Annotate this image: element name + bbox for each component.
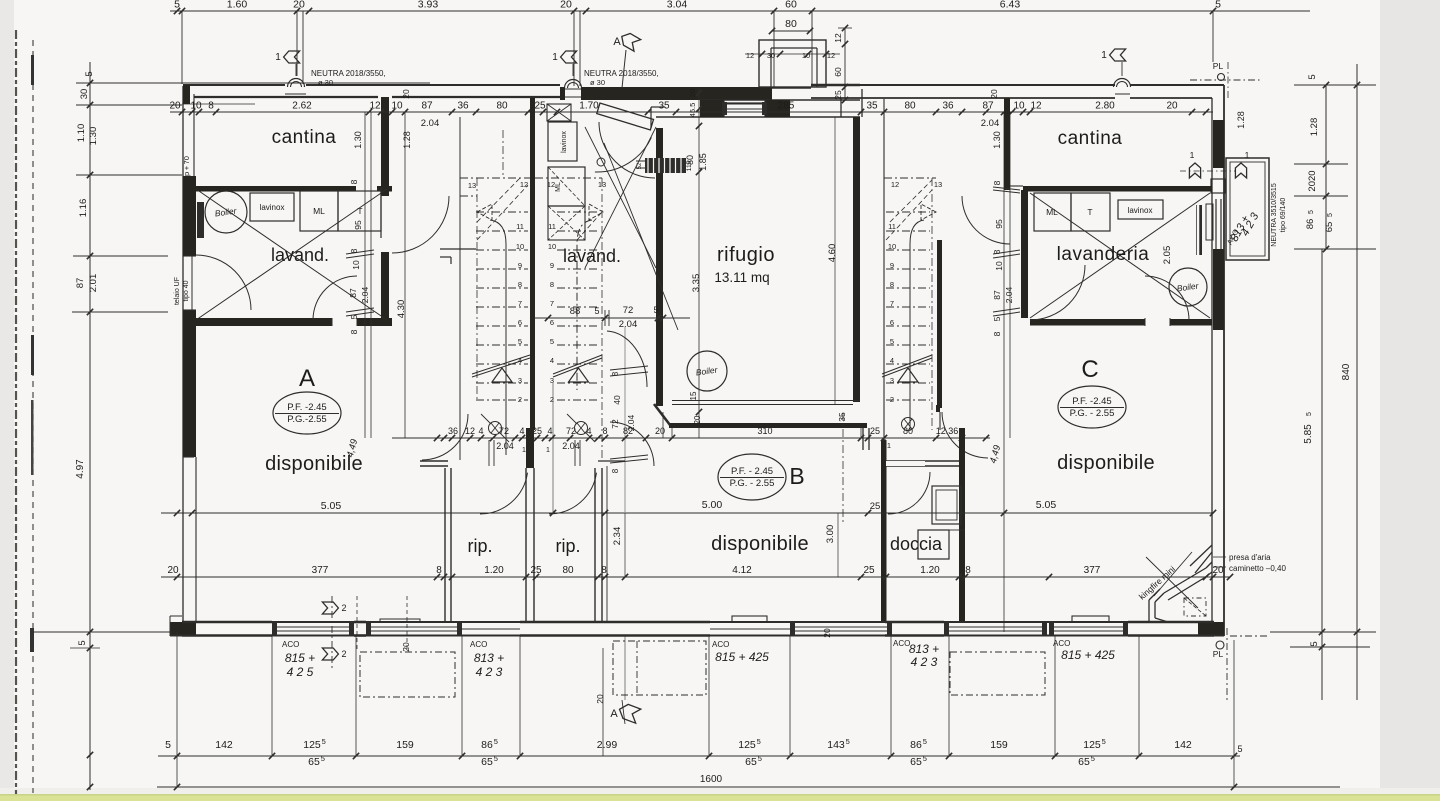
svg-text:95: 95: [353, 220, 363, 230]
svg-text:1.70: 1.70: [579, 101, 599, 112]
svg-text:143: 143: [827, 739, 845, 751]
svg-text:813 +: 813 +: [909, 642, 939, 656]
svg-text:13.11 mq: 13.11 mq: [714, 270, 769, 285]
svg-text:NEUTRA 2018/3550,: NEUTRA 2018/3550,: [311, 69, 386, 78]
svg-text:72: 72: [610, 419, 620, 429]
svg-text:P.G. - 2.55: P.G. - 2.55: [1070, 408, 1115, 419]
svg-text:lavinox: lavinox: [260, 203, 285, 212]
svg-text:5: 5: [174, 0, 180, 11]
svg-text:ACO: ACO: [1053, 639, 1070, 648]
svg-text:2.99: 2.99: [597, 739, 618, 751]
svg-text:1600: 1600: [700, 774, 723, 785]
svg-text:C: C: [1081, 356, 1098, 383]
svg-text:lavanderia: lavanderia: [1057, 244, 1150, 265]
svg-text:30: 30: [767, 51, 775, 60]
svg-text:20: 20: [401, 642, 411, 652]
svg-text:lavand.: lavand.: [271, 245, 329, 265]
svg-text:4 2 5: 4 2 5: [287, 665, 314, 679]
svg-text:ACO: ACO: [282, 640, 299, 649]
svg-text:65: 65: [910, 756, 922, 768]
svg-text:4: 4: [547, 426, 552, 436]
svg-text:10: 10: [351, 260, 361, 270]
svg-text:disponibile: disponibile: [265, 453, 363, 475]
svg-text:35: 35: [837, 412, 847, 422]
svg-text:25: 25: [870, 426, 880, 436]
svg-text:2.34: 2.34: [612, 527, 623, 546]
svg-text:3: 3: [890, 376, 894, 385]
svg-text:65: 65: [1324, 222, 1335, 233]
svg-text:tipo 40: tipo 40: [183, 280, 190, 301]
svg-text:lavand.: lavand.: [563, 246, 621, 266]
svg-text:5: 5: [846, 737, 850, 746]
svg-text:377: 377: [1084, 565, 1101, 576]
svg-text:5: 5: [890, 337, 894, 346]
svg-text:5: 5: [1091, 754, 1095, 763]
svg-text:rifugio: rifugio: [717, 244, 775, 266]
svg-text:P.F. -2.45: P.F. -2.45: [287, 402, 326, 413]
svg-text:142: 142: [215, 739, 233, 751]
svg-text:2.01: 2.01: [88, 274, 99, 293]
svg-text:2.04: 2.04: [981, 118, 1000, 129]
svg-text:ML: ML: [555, 182, 562, 192]
svg-text:12: 12: [891, 180, 899, 189]
svg-text:20: 20: [167, 565, 179, 576]
svg-text:5.00: 5.00: [702, 499, 723, 511]
svg-text:4.60: 4.60: [827, 244, 838, 263]
svg-text:4: 4: [890, 356, 894, 365]
svg-text:5: 5: [518, 337, 522, 346]
svg-text:11: 11: [516, 222, 524, 231]
svg-text:4 2 3: 4 2 3: [476, 665, 503, 679]
svg-text:86: 86: [481, 739, 493, 751]
svg-text:5: 5: [1309, 641, 1320, 646]
svg-text:1.20: 1.20: [484, 565, 504, 576]
svg-text:20: 20: [595, 694, 605, 704]
svg-text:ACO: ACO: [893, 639, 910, 648]
svg-text:11: 11: [548, 222, 556, 231]
svg-text:159: 159: [396, 739, 414, 751]
svg-text:1: 1: [552, 52, 558, 63]
svg-text:1.10: 1.10: [76, 124, 87, 143]
svg-text:ø 30: ø 30: [590, 78, 605, 87]
svg-text:5: 5: [758, 754, 762, 763]
svg-text:P.G. - 2.55: P.G. - 2.55: [730, 478, 775, 489]
svg-text:PL: PL: [1213, 649, 1224, 659]
svg-text:86: 86: [1305, 219, 1316, 230]
svg-text:815 + 425: 815 + 425: [1061, 648, 1115, 662]
svg-text:125: 125: [1083, 739, 1101, 751]
svg-text:8: 8: [602, 426, 607, 436]
svg-text:87: 87: [992, 290, 1002, 300]
svg-text:35: 35: [866, 101, 878, 112]
svg-text:8: 8: [992, 180, 1002, 185]
svg-text:1.28: 1.28: [402, 131, 412, 149]
svg-text:7: 7: [518, 299, 522, 308]
svg-text:3.00: 3.00: [825, 525, 836, 544]
svg-text:87: 87: [982, 101, 994, 112]
svg-text:6: 6: [890, 318, 894, 327]
svg-text:2020: 2020: [1307, 170, 1318, 191]
svg-text:1: 1: [546, 447, 550, 454]
svg-text:65: 65: [1078, 756, 1090, 768]
svg-text:36: 36: [457, 101, 469, 112]
svg-text:5: 5: [923, 737, 927, 746]
svg-text:4.12: 4.12: [732, 565, 752, 576]
svg-text:10: 10: [190, 101, 202, 112]
svg-text:5: 5: [923, 754, 927, 763]
svg-text:4.97: 4.97: [75, 459, 86, 479]
svg-text:60: 60: [785, 0, 797, 11]
svg-text:2.62: 2.62: [292, 101, 312, 112]
svg-text:6: 6: [550, 318, 554, 327]
svg-text:A: A: [299, 365, 315, 392]
svg-text:5: 5: [653, 305, 658, 315]
svg-text:813 +: 813 +: [474, 651, 504, 665]
svg-text:5: 5: [1102, 737, 1106, 746]
svg-text:45.5: 45.5: [688, 103, 697, 118]
svg-text:8: 8: [349, 329, 359, 334]
svg-text:7: 7: [890, 299, 894, 308]
svg-text:20: 20: [693, 415, 702, 424]
svg-text:80: 80: [496, 101, 508, 112]
svg-text:ML: ML: [313, 206, 325, 216]
svg-text:87: 87: [421, 101, 433, 112]
svg-text:36: 36: [942, 101, 954, 112]
svg-text:P.F. - 2.45: P.F. - 2.45: [731, 466, 773, 477]
svg-text:6.43: 6.43: [1000, 0, 1021, 11]
svg-text:11: 11: [888, 222, 896, 231]
svg-text:25: 25: [870, 501, 881, 512]
svg-text:5: 5: [494, 737, 498, 746]
svg-text:NEUTRA 2018/3550,: NEUTRA 2018/3550,: [584, 69, 659, 78]
svg-text:lavinox: lavinox: [561, 131, 568, 153]
svg-text:1.30: 1.30: [992, 131, 1002, 149]
svg-text:5: 5: [349, 314, 359, 319]
svg-text:36: 36: [448, 426, 458, 436]
svg-text:4 2 3: 4 2 3: [911, 655, 938, 669]
svg-text:87: 87: [75, 278, 86, 289]
svg-text:25: 25: [530, 565, 542, 576]
svg-text:3.93: 3.93: [418, 0, 439, 11]
svg-text:25: 25: [534, 101, 546, 112]
svg-text:35: 35: [658, 101, 670, 112]
svg-text:815 +: 815 +: [285, 651, 315, 665]
svg-text:2: 2: [518, 395, 522, 404]
svg-text:disponibile: disponibile: [711, 533, 809, 555]
svg-text:2: 2: [550, 395, 554, 404]
svg-text:5: 5: [322, 737, 326, 746]
svg-text:doccia: doccia: [890, 534, 943, 554]
svg-text:P.F. -2.45: P.F. -2.45: [1072, 396, 1111, 407]
svg-text:A: A: [610, 708, 618, 720]
svg-text:30: 30: [79, 89, 90, 100]
svg-text:8: 8: [349, 179, 359, 184]
svg-text:20: 20: [169, 101, 181, 112]
svg-text:7: 7: [550, 299, 554, 308]
svg-text:8: 8: [349, 248, 359, 253]
svg-text:1: 1: [522, 447, 526, 454]
svg-text:1.20: 1.20: [920, 565, 940, 576]
svg-text:5: 5: [1308, 210, 1315, 214]
svg-text:ø 30: ø 30: [318, 78, 333, 87]
svg-text:4.30: 4.30: [396, 300, 407, 319]
svg-text:13: 13: [468, 181, 476, 190]
svg-text:A: A: [613, 36, 621, 48]
svg-text:5: 5: [165, 739, 171, 751]
svg-text:B: B: [789, 463, 804, 489]
svg-text:86: 86: [910, 739, 922, 751]
svg-text:ACO: ACO: [712, 640, 729, 649]
svg-text:NEUTRA 3510/3515: NEUTRA 3510/3515: [1271, 183, 1278, 247]
svg-text:5: 5: [1307, 74, 1318, 79]
svg-text:2: 2: [890, 395, 894, 404]
svg-text:9: 9: [518, 261, 522, 270]
svg-text:4: 4: [478, 426, 483, 436]
svg-text:20: 20: [655, 426, 665, 436]
svg-text:72: 72: [623, 305, 634, 316]
svg-text:2.04: 2.04: [562, 441, 580, 451]
svg-text:25: 25: [863, 565, 875, 576]
svg-text:20: 20: [293, 0, 305, 11]
svg-text:6: 6: [518, 318, 522, 327]
svg-text:ACO: ACO: [470, 640, 487, 649]
svg-text:310: 310: [757, 426, 772, 436]
svg-text:2: 2: [341, 649, 346, 659]
svg-text:5.05: 5.05: [321, 500, 342, 512]
svg-text:142: 142: [1174, 739, 1192, 751]
svg-text:285: 285: [778, 101, 795, 112]
svg-text:PL: PL: [1213, 61, 1224, 71]
svg-text:10: 10: [548, 242, 556, 251]
svg-text:8: 8: [518, 280, 522, 289]
svg-text:5.85: 5.85: [1303, 424, 1314, 444]
svg-text:12: 12: [746, 51, 754, 60]
svg-text:10: 10: [1013, 101, 1025, 112]
svg-text:15: 15: [689, 391, 698, 400]
svg-text:1: 1: [887, 441, 891, 450]
svg-text:5: 5: [550, 337, 554, 346]
svg-text:lavinox: lavinox: [1128, 206, 1153, 215]
svg-text:rip.: rip.: [467, 536, 492, 556]
svg-text:8: 8: [992, 331, 1002, 336]
svg-text:840: 840: [1341, 363, 1352, 380]
svg-text:60: 60: [833, 67, 843, 77]
svg-text:5: 5: [494, 754, 498, 763]
svg-text:87: 87: [348, 288, 358, 298]
svg-text:1.85: 1.85: [698, 153, 708, 171]
svg-text:159: 159: [990, 739, 1008, 751]
svg-text:rip.: rip.: [555, 536, 580, 556]
svg-text:1: 1: [1245, 150, 1250, 160]
svg-text:2.04: 2.04: [1004, 286, 1014, 303]
svg-text:9: 9: [550, 261, 554, 270]
svg-text:caminetto –0,40: caminetto –0,40: [1229, 564, 1286, 573]
svg-text:8: 8: [965, 565, 971, 576]
svg-text:2: 2: [341, 603, 346, 613]
svg-text:20: 20: [822, 628, 832, 638]
svg-text:20: 20: [1166, 101, 1178, 112]
svg-text:88: 88: [570, 306, 581, 317]
svg-text:115: 115: [686, 160, 693, 171]
svg-text:5: 5: [321, 754, 325, 763]
svg-text:p + 70: p + 70: [182, 156, 191, 176]
svg-text:20: 20: [560, 0, 572, 11]
svg-text:125: 125: [738, 739, 756, 751]
svg-text:12: 12: [520, 180, 528, 189]
svg-text:8: 8: [550, 280, 554, 289]
svg-text:20: 20: [989, 89, 999, 99]
svg-text:T: T: [1087, 207, 1092, 217]
svg-text:40: 40: [612, 395, 622, 405]
svg-text:1.16: 1.16: [78, 199, 89, 218]
svg-text:10: 10: [994, 261, 1004, 271]
svg-text:cantina: cantina: [272, 127, 337, 148]
svg-text:65: 65: [481, 756, 493, 768]
svg-text:20: 20: [688, 89, 697, 97]
svg-text:65: 65: [745, 756, 757, 768]
svg-text:8: 8: [890, 280, 894, 289]
svg-text:12.36: 12.36: [936, 426, 959, 436]
svg-text:2.05: 2.05: [1162, 246, 1173, 265]
svg-text:1: 1: [1190, 150, 1195, 160]
svg-text:815 + 425: 815 + 425: [715, 650, 769, 664]
svg-text:1.60: 1.60: [227, 0, 248, 11]
svg-text:P.G.-2.55: P.G.-2.55: [287, 414, 326, 425]
svg-text:377: 377: [312, 565, 329, 576]
svg-text:5: 5: [594, 306, 599, 316]
svg-text:5: 5: [992, 316, 1002, 321]
svg-text:2.04: 2.04: [626, 414, 636, 431]
svg-text:20: 20: [401, 89, 411, 99]
svg-text:disponibile: disponibile: [1057, 452, 1155, 474]
svg-text:5: 5: [1327, 213, 1334, 217]
svg-text:2.04: 2.04: [496, 441, 514, 451]
svg-text:3.04: 3.04: [667, 0, 688, 11]
svg-text:8: 8: [436, 565, 442, 576]
svg-text:8: 8: [611, 468, 620, 473]
svg-text:5: 5: [1237, 744, 1242, 754]
svg-text:5.05: 5.05: [1036, 499, 1057, 511]
svg-text:1.28: 1.28: [1236, 111, 1246, 129]
svg-text:12: 12: [833, 33, 843, 43]
svg-text:10: 10: [391, 101, 403, 112]
svg-text:80: 80: [562, 565, 574, 576]
svg-text:1: 1: [1101, 50, 1107, 61]
svg-text:10: 10: [516, 242, 524, 251]
svg-text:telaio UF: telaio UF: [174, 277, 181, 305]
svg-text:1.30: 1.30: [353, 131, 363, 149]
svg-text:4: 4: [519, 426, 524, 436]
svg-text:5: 5: [757, 737, 761, 746]
svg-text:1.30: 1.30: [88, 127, 99, 146]
svg-text:2.04: 2.04: [421, 118, 440, 129]
svg-text:12: 12: [1030, 101, 1042, 112]
svg-text:10: 10: [888, 242, 896, 251]
svg-text:9: 9: [890, 261, 894, 270]
svg-text:5: 5: [1215, 0, 1221, 11]
svg-text:3: 3: [518, 376, 522, 385]
svg-text:125: 125: [303, 739, 321, 751]
svg-text:12: 12: [369, 101, 381, 112]
svg-text:presa d'aria: presa d'aria: [1229, 553, 1271, 562]
svg-text:8: 8: [208, 101, 214, 112]
svg-text:3.35: 3.35: [691, 274, 702, 293]
svg-text:cantina: cantina: [1058, 128, 1123, 149]
svg-text:2.80: 2.80: [1095, 101, 1115, 112]
svg-text:tipo 69/140: tipo 69/140: [1280, 198, 1287, 233]
svg-text:5: 5: [84, 71, 95, 76]
svg-text:1: 1: [275, 52, 281, 63]
svg-text:2.04: 2.04: [619, 319, 638, 330]
svg-text:1.28: 1.28: [1309, 118, 1320, 137]
svg-text:5: 5: [77, 640, 88, 645]
svg-text:8: 8: [601, 565, 607, 576]
svg-text:5: 5: [1306, 412, 1313, 416]
svg-text:4: 4: [550, 356, 554, 365]
svg-text:13: 13: [934, 180, 942, 189]
svg-text:65: 65: [308, 756, 320, 768]
svg-text:95: 95: [994, 219, 1004, 229]
svg-text:80: 80: [785, 18, 797, 30]
svg-text:80: 80: [904, 101, 916, 112]
